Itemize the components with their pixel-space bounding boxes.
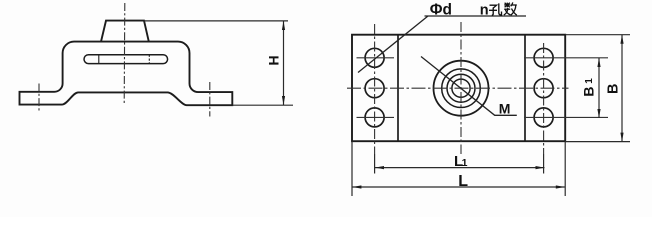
svg-text:B: B — [580, 86, 596, 96]
svg-text:L: L — [458, 173, 468, 190]
svg-text:H: H — [265, 55, 281, 65]
svg-text:1: 1 — [462, 157, 468, 169]
svg-text:Φd: Φd — [430, 1, 452, 18]
svg-text:B: B — [605, 83, 621, 93]
svg-text:n: n — [480, 2, 489, 18]
svg-text:1: 1 — [584, 78, 595, 84]
svg-text:M: M — [499, 101, 511, 117]
